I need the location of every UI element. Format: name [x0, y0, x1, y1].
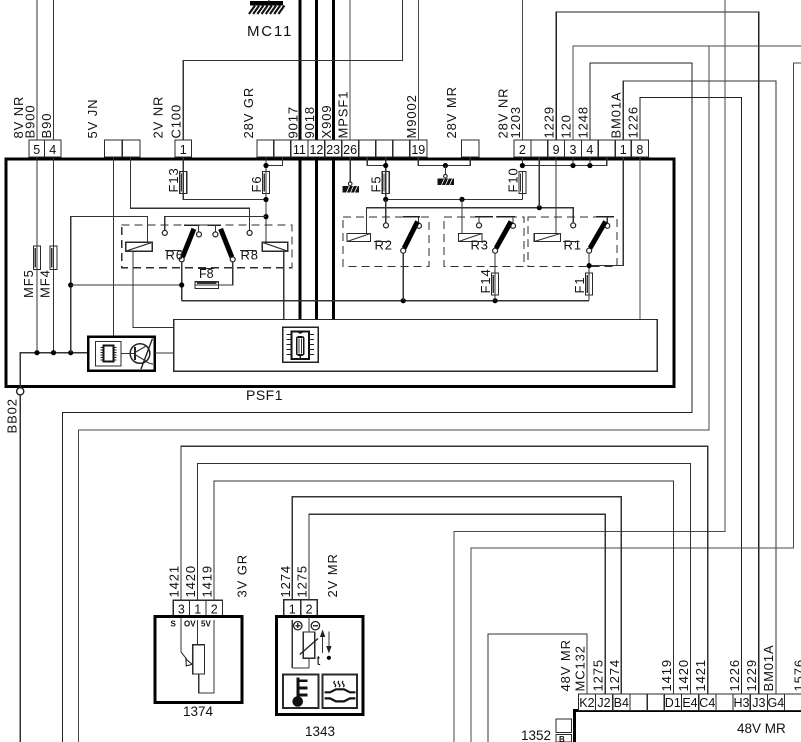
- ground M9002 internal: [438, 166, 455, 186]
- box 1374: [155, 617, 242, 703]
- wire R8 coil out to module: [283, 251, 285, 319]
- svg-text:D1: D1: [665, 696, 681, 710]
- svg-text:R1: R1: [564, 238, 582, 253]
- component 1374 sensor: [155, 600, 242, 719]
- wire 5VJN b to R8 contact: [131, 157, 250, 230]
- wire R3 output into F14: [494, 254, 496, 273]
- svg-text:5: 5: [33, 143, 40, 157]
- svg-text:1419: 1419: [200, 565, 215, 598]
- svg-text:K2: K2: [579, 696, 594, 710]
- svg-text:1: 1: [289, 603, 296, 617]
- wire 1203 pin2 to top: [521, 0, 523, 140]
- relay R8: [208, 225, 288, 262]
- svg-text:4: 4: [586, 143, 593, 157]
- pin 3 of 1374: [173, 600, 189, 616]
- wire F1 to out line: [588, 295, 590, 301]
- pin blank f: [531, 140, 548, 157]
- svg-text:C100: C100: [169, 104, 184, 139]
- wire F5 node to R2 contact: [385, 199, 387, 222]
- wire pin blank d into F5: [385, 157, 387, 172]
- ground MPSF1 internal: [343, 182, 360, 193]
- svg-text:F6: F6: [249, 176, 264, 193]
- svg-text:2V MR: 2V MR: [325, 553, 340, 597]
- wire 1275 1343 pin2 to BSI J2: [309, 514, 605, 694]
- pin 4b: [582, 140, 599, 157]
- wire C100 pin1 up and right to top edge: [183, 0, 402, 140]
- wire 9018 into module: [315, 157, 318, 320]
- svg-text:X909: X909: [319, 105, 334, 139]
- svg-text:R3: R3: [471, 238, 489, 253]
- svg-text:120: 120: [559, 114, 574, 138]
- pin 28VGR a: [257, 140, 274, 157]
- pin blank j: [716, 694, 733, 711]
- svg-text:1275: 1275: [591, 659, 606, 692]
- svg-text:1420: 1420: [676, 659, 691, 692]
- svg-text:1229: 1229: [744, 659, 759, 692]
- svg-text:2: 2: [306, 603, 313, 617]
- pin blank g: [598, 140, 615, 157]
- pin 23: [325, 140, 342, 157]
- pin 1b: [615, 140, 631, 157]
- pin C4: [699, 694, 716, 711]
- fuse MF5: [34, 246, 41, 270]
- svg-text:1421: 1421: [167, 565, 182, 598]
- svg-text:26: 26: [343, 143, 357, 157]
- plus terminal: [294, 622, 302, 630]
- wire MC132 BSI K2: [488, 634, 587, 742]
- pin E4: [681, 694, 698, 711]
- wire CPU to module: [155, 352, 174, 354]
- svg-text:2: 2: [211, 603, 218, 617]
- pin G4: [767, 694, 784, 711]
- junction dots MF bus: [34, 350, 39, 355]
- svg-text:5V JN: 5V JN: [85, 99, 100, 139]
- svg-text:1226: 1226: [625, 106, 640, 139]
- svg-text:R2: R2: [375, 238, 393, 253]
- pin 8: [631, 140, 648, 157]
- box module: [174, 320, 658, 372]
- svg-text:BM01A: BM01A: [609, 91, 624, 138]
- pin 2 of 1374: [206, 600, 223, 616]
- svg-text:F1: F1: [572, 277, 587, 294]
- wire F13 out to F6 node: [183, 194, 266, 200]
- svg-text:BB02: BB02: [5, 398, 20, 433]
- pin J3: [750, 694, 767, 711]
- wire pin8 down to module: [639, 157, 641, 320]
- wire R6 contact to F6 node: [165, 217, 266, 230]
- svg-text:PSF1: PSF1: [246, 387, 283, 403]
- svg-text:1275: 1275: [295, 565, 310, 598]
- relay R1: [534, 217, 614, 253]
- wire internal bus left: [71, 217, 148, 353]
- svg-text:MC132: MC132: [573, 645, 588, 691]
- wire pin 28VGRa into F6: [265, 157, 267, 172]
- svg-text:F5: F5: [369, 176, 384, 193]
- pin 1 of 1343: [284, 600, 301, 617]
- svg-text:28V GR: 28V GR: [241, 87, 256, 139]
- svg-text:MPSF1: MPSF1: [336, 91, 351, 139]
- potentiometer in 1374: [180, 618, 182, 652]
- relay box R3 dashed: [444, 217, 524, 267]
- pin 1 C100: [175, 140, 192, 157]
- svg-text:J2: J2: [597, 696, 610, 710]
- pin blank h: [630, 694, 647, 711]
- IC chip symbol: [96, 342, 122, 367]
- svg-text:1229: 1229: [542, 106, 557, 139]
- pin B4: [613, 694, 630, 711]
- svg-text:1274: 1274: [278, 565, 293, 598]
- wire pin1b down to R1 output: [589, 157, 623, 266]
- svg-text:1203: 1203: [508, 106, 523, 139]
- svg-text:R8: R8: [241, 248, 259, 263]
- wire R6 coil out to module: [133, 251, 174, 327]
- svg-text:1: 1: [194, 603, 201, 617]
- wire MF bus to CPU: [20, 353, 88, 391]
- svg-text:J3: J3: [752, 696, 765, 710]
- svg-text:48V MR: 48V MR: [737, 721, 786, 736]
- relay R2: [347, 217, 422, 253]
- pin H3: [733, 694, 750, 711]
- wire 1421 1374 pin3 to BSI C4: [181, 446, 708, 694]
- svg-text:1421: 1421: [693, 659, 708, 692]
- pin 1 of 1374: [190, 600, 207, 616]
- svg-text:23: 23: [326, 143, 340, 157]
- svg-text:F13: F13: [166, 167, 181, 192]
- pin 5V JN a: [105, 140, 123, 157]
- icon washer jet: [323, 674, 358, 708]
- svg-text:F10: F10: [505, 167, 520, 192]
- svg-text:3: 3: [570, 143, 577, 157]
- relay R3: [459, 217, 516, 253]
- svg-text:F14: F14: [478, 268, 493, 293]
- pin 28VMR: [462, 140, 480, 157]
- svg-text:1352: 1352: [521, 728, 551, 742]
- pin 3: [565, 140, 582, 157]
- relay R6: [126, 225, 202, 262]
- wire from right edge y63 down left and off bottom: [471, 63, 801, 742]
- svg-text:H3: H3: [734, 696, 750, 710]
- wire R1 output into F1: [588, 254, 590, 273]
- pin 28VGR b: [274, 140, 291, 157]
- relay box R1 dashed: [528, 217, 617, 267]
- svg-text:F8: F8: [199, 267, 214, 281]
- transistor symbol in CPU: [121, 339, 153, 370]
- svg-text:B900: B900: [23, 105, 38, 139]
- wire X909 into module: [332, 157, 335, 320]
- svg-text:9018: 9018: [302, 106, 317, 139]
- wire tap to R3 coil: [461, 199, 463, 233]
- wire pin26 to internal ground: [349, 157, 351, 182]
- wire pin 28VGRb L to F6 column: [266, 157, 282, 166]
- pin 2 of 1343: [301, 600, 318, 617]
- svg-text:1226: 1226: [727, 659, 742, 692]
- svg-text:8: 8: [636, 143, 643, 157]
- wire pin19 ground bus: [418, 157, 470, 166]
- thermistor in 1343: [291, 620, 293, 668]
- svg-text:G4: G4: [768, 696, 785, 710]
- wire pin4b stub: [589, 157, 591, 166]
- svg-text:4: 4: [49, 143, 56, 157]
- pin blank c: [359, 140, 376, 157]
- svg-text:1343: 1343: [305, 724, 335, 739]
- temperature arrows: [322, 634, 324, 653]
- fuse F6: [263, 172, 270, 194]
- wire F5 bus to F10 with taps: [385, 194, 387, 200]
- wire 1420 1374 pin1 to BSI E4: [198, 463, 691, 694]
- component 1352: [521, 719, 572, 742]
- svg-text:1419: 1419: [659, 659, 674, 692]
- wire net 120 branch down from y46 left and off bottom: [79, 46, 709, 742]
- pin 5: [29, 140, 45, 157]
- pin K2: [578, 694, 595, 711]
- fuse F14: [492, 273, 499, 295]
- wire pin3 stub: [572, 157, 574, 166]
- pin 5V JN b: [122, 140, 140, 157]
- pin blank i: [647, 694, 664, 711]
- pin blank k: [784, 694, 801, 711]
- wire pin9 down to R1 coil: [555, 157, 557, 234]
- PSF1 connector pin boxes: [29, 140, 649, 157]
- svg-text:11: 11: [293, 143, 306, 157]
- wire R8 output to F8: [219, 262, 233, 285]
- minus terminal: [311, 622, 319, 630]
- svg-text:28V MR: 28V MR: [444, 86, 459, 138]
- svg-text:19: 19: [411, 143, 425, 157]
- wire pin blank f to coil line: [538, 157, 540, 208]
- wire 9017 into module: [298, 157, 301, 320]
- wire M9002 pin19 to top: [417, 0, 419, 140]
- wire pin2 bus: [522, 157, 606, 166]
- svg-text:1420: 1420: [183, 565, 198, 598]
- pin 9: [548, 140, 565, 157]
- fuse MF4: [50, 246, 57, 270]
- wire pin blank c L to F5: [367, 157, 386, 166]
- svg-text:M9002: M9002: [404, 94, 419, 138]
- pin 19: [410, 140, 427, 157]
- box 1343: [276, 616, 362, 714]
- wire 1226 pin8 to BSI H3: [640, 98, 742, 695]
- wire B90 pin4 to top edge: [53, 0, 55, 140]
- svg-text:B4: B4: [614, 696, 629, 710]
- svg-text:48V MR: 48V MR: [558, 639, 573, 691]
- svg-text:1374: 1374: [183, 704, 214, 719]
- pin 2: [514, 140, 531, 157]
- svg-text:t: t: [317, 653, 321, 668]
- wire 1419 1374 pin2 to BSI D1: [214, 481, 673, 694]
- pin J2: [595, 694, 612, 711]
- svg-text:1: 1: [620, 143, 627, 157]
- svg-text:MC11: MC11: [247, 23, 293, 40]
- wire B900 pin5 to top edge: [36, 0, 38, 140]
- connector symbol in module: [283, 327, 319, 362]
- pin 4: [45, 140, 62, 157]
- svg-text:2: 2: [519, 143, 526, 157]
- wire pin1 C100 into F13: [182, 157, 184, 172]
- svg-text:9: 9: [553, 143, 560, 157]
- svg-text:5V: 5V: [201, 620, 211, 629]
- wire branch to F8 line: [68, 282, 73, 287]
- pin 26: [342, 140, 359, 157]
- pin D1: [664, 694, 681, 711]
- wire R6 output down to out line: [181, 262, 183, 300]
- svg-text:OV: OV: [184, 620, 196, 629]
- svg-text:1576: 1576: [792, 659, 801, 692]
- wire MPSF1 pin26 to top: [349, 0, 351, 140]
- relay box R6 R8 dashed: [122, 225, 292, 268]
- svg-text:R6: R6: [166, 248, 184, 263]
- wire coil feed line R2 R1: [367, 208, 574, 234]
- svg-text:1248: 1248: [575, 106, 590, 139]
- wire R2 output down: [402, 254, 404, 301]
- fuse F10: [519, 172, 526, 194]
- svg-text:1274: 1274: [607, 659, 622, 692]
- wire 1274 1343 pin1 to BSI B4: [292, 497, 621, 694]
- wire pin5 to MF5: [36, 157, 38, 353]
- wire 9018 thick pin12 to top: [315, 0, 318, 140]
- pin blank e: [393, 140, 410, 157]
- svg-text:1: 1: [180, 143, 187, 157]
- pin blank d: [376, 140, 393, 157]
- component BSI box: [575, 694, 801, 742]
- fuse F5: [382, 172, 389, 194]
- wire F14 to out line: [494, 295, 496, 301]
- wire 1229 pin9 to BSI J3: [556, 12, 759, 694]
- relay box R2 dashed: [343, 217, 429, 267]
- wire 5VJN a to CPU: [112, 157, 114, 337]
- wire from top edge down left and off bottom: [454, 0, 725, 742]
- svg-text:9017: 9017: [285, 106, 300, 139]
- pin 12: [308, 140, 325, 157]
- svg-text:3V GR: 3V GR: [235, 554, 250, 598]
- fuse F13: [180, 172, 187, 194]
- svg-text:B: B: [559, 735, 565, 742]
- wire BB02 down: [19, 395, 21, 742]
- wire 120 pin3 exits right edge: [573, 46, 801, 140]
- svg-text:12: 12: [309, 143, 323, 157]
- wire X909 thick pin23 to top: [332, 0, 335, 140]
- wire pin4 to MF4: [53, 157, 55, 353]
- wire 9017 thick pin11 to top: [298, 0, 301, 140]
- svg-text:S: S: [171, 620, 177, 629]
- svg-text:MF4: MF4: [38, 269, 53, 298]
- ground MC11: [247, 0, 293, 40]
- svg-text:BM01A: BM01A: [761, 644, 776, 691]
- svg-text:3: 3: [178, 603, 185, 617]
- wire BM01A pin1 to BSI G4: [623, 81, 776, 694]
- box CPU: [88, 337, 155, 371]
- svg-text:C4: C4: [699, 696, 715, 710]
- svg-text:2V NR: 2V NR: [151, 96, 166, 139]
- svg-text:E4: E4: [682, 696, 697, 710]
- node BB02: [17, 388, 24, 395]
- icon thermometer: [283, 674, 318, 708]
- fuse F1: [586, 273, 593, 295]
- wire 1248 pin4 right loop down left and off bottom: [62, 63, 692, 742]
- wire output line common: [182, 300, 589, 302]
- pin 11: [291, 140, 308, 157]
- svg-text:MF5: MF5: [21, 269, 36, 298]
- wire F10 out left to F5 bus: [521, 194, 523, 200]
- component 1343 sensor: [276, 600, 362, 739]
- svg-text:B90: B90: [39, 113, 54, 139]
- fuse F8: [195, 282, 219, 289]
- box PSF1: [6, 159, 674, 387]
- wire F6 down to R8 coil: [265, 194, 267, 243]
